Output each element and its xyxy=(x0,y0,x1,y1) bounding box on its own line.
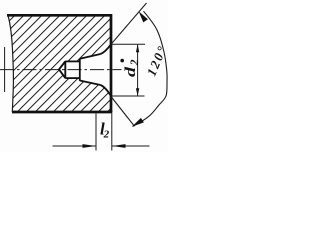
cone small-end circle (edge-on) xyxy=(79,58,81,81)
centre line (dash-dot axis) xyxy=(0,69,122,71)
120deg chamfer extension line bottom-right xyxy=(111,97,135,127)
hatching 45deg xyxy=(0,10,218,116)
d2 arrow up xyxy=(136,45,139,53)
l2 extension line left xyxy=(95,114,97,151)
d2 dimension line xyxy=(137,45,139,96)
part outline: right face xyxy=(110,14,113,112)
stray vertical tick at left xyxy=(4,47,6,92)
60deg cone bottom line xyxy=(80,81,101,86)
pilot hole start circle (edge-on) xyxy=(64,61,66,78)
l2 dimension line left with arrow xyxy=(53,145,97,147)
part outline: top edge xyxy=(7,14,111,17)
centre hole: drill point xyxy=(59,61,65,78)
asterisk blob of d2* xyxy=(120,59,124,63)
break (wavy) line left xyxy=(8,15,13,112)
120deg chamfer bottom line xyxy=(101,85,112,96)
arc arrow bottom xyxy=(132,118,144,127)
d2 extension line bottom xyxy=(112,95,145,97)
pilot hole cylinder top xyxy=(65,60,79,62)
angular dimension arc xyxy=(133,11,168,126)
part outline: bottom edge xyxy=(12,111,112,114)
label d2* (rotated) xyxy=(123,59,141,77)
label 120deg (rotated) xyxy=(144,43,170,79)
arc arrow top xyxy=(139,11,148,22)
l2 extension line right xyxy=(111,114,113,151)
svg-text:d: d xyxy=(123,66,139,77)
d2 extension line top xyxy=(112,43,145,45)
svg-text:2: 2 xyxy=(129,59,141,66)
120deg chamfer top line xyxy=(101,44,112,54)
svg-text:2: 2 xyxy=(103,129,110,141)
d2 arrow down xyxy=(136,88,139,96)
l2 dimension line right with arrow xyxy=(112,145,150,147)
pilot hole cylinder bottom xyxy=(65,77,79,79)
120deg chamfer extension line top-right xyxy=(111,3,147,44)
60deg cone top line xyxy=(80,54,101,59)
